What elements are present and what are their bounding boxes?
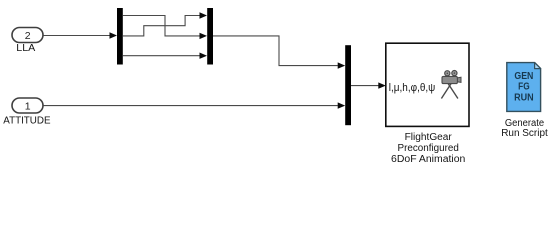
wire demux out1 to mux M1 in2	[123, 16, 200, 36]
svg-text:2: 2	[25, 30, 31, 42]
mux M1	[207, 8, 213, 65]
camera reel right	[452, 71, 457, 76]
svg-text:l,μ,h,φ,θ,ψ: l,μ,h,φ,θ,ψ	[389, 82, 436, 94]
arrowhead into FlightGear block	[378, 82, 386, 88]
camera reel left	[445, 71, 450, 76]
svg-text:FlightGear: FlightGear	[405, 132, 453, 143]
camera body	[442, 76, 457, 83]
camera reel right hub	[454, 72, 456, 74]
svg-text:ATTITUDE: ATTITUDE	[3, 116, 51, 127]
svg-text:Run Script: Run Script	[501, 128, 548, 139]
inport 2 (LLA)	[12, 28, 43, 43]
mux M2	[345, 45, 351, 125]
arrowhead M1 in2	[200, 33, 208, 39]
arrowhead into demux	[110, 32, 118, 38]
camera tripod legs	[441, 83, 451, 98]
FlightGear Preconfigured 6DoF Animation block U1	[386, 43, 469, 126]
svg-text:1: 1	[25, 100, 31, 112]
caption FlightGear / Preconfigured / 6DoF Animation	[391, 132, 465, 165]
svg-text:FG: FG	[518, 82, 530, 93]
camera reel left hub	[447, 73, 449, 75]
text GEN FG RUN	[514, 71, 534, 104]
svg-text:Generate: Generate	[505, 118, 545, 129]
arrowhead M1 in3	[200, 53, 208, 59]
svg-text:GEN: GEN	[514, 71, 533, 82]
document fold corner	[535, 63, 541, 69]
Generate Run Script block (document icon)	[507, 63, 541, 112]
wire port2 to demux	[44, 35, 111, 37]
svg-text:LLA: LLA	[16, 43, 35, 54]
camera lens	[457, 77, 461, 82]
wire demux out3 to mux M1 in3	[123, 55, 200, 57]
wire mux M2 out to FlightGear block	[351, 85, 379, 87]
inport 1 (ATTITUDE)	[12, 98, 43, 113]
svg-text:6DoF Animation: 6DoF Animation	[391, 154, 465, 165]
arrowhead M2 in2	[338, 102, 346, 108]
svg-text:RUN: RUN	[514, 92, 534, 103]
demux D1	[117, 8, 123, 65]
wire demux out2 to mux M1 in1	[123, 16, 200, 36]
wire mux M1 out to mux M2 in1	[213, 36, 338, 66]
caption Generate / Run Script	[501, 118, 548, 139]
camera icon	[441, 71, 461, 99]
svg-text:Preconfigured: Preconfigured	[398, 143, 459, 154]
wire port1 to mux M2 in2	[44, 105, 338, 107]
arrowhead M2 in1	[338, 62, 346, 68]
arrowhead M1 in1	[200, 12, 208, 18]
